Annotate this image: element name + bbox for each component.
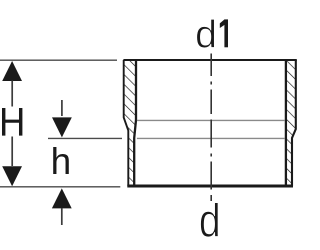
label d1: letter d: [197, 19, 215, 47]
label h: [53, 147, 69, 174]
label H: [2, 108, 22, 136]
dimension H arrow down: [2, 166, 22, 186]
top extension line (H top / fitting top face): [0, 59, 117, 61]
socket interior line upper: [137, 119, 285, 121]
dimension h arrow down (outside, above h top line): [52, 117, 72, 137]
bottom extension line (H bottom / fitting bottom face): [0, 186, 120, 188]
pipe top edge: [123, 59, 296, 61]
dimension h arrow up (outside, below bottom line): [52, 188, 72, 208]
pipe right wall outer edge: [292, 60, 296, 186]
dimension H arrow up: [2, 61, 22, 81]
dimension H line lower segment: [11, 137, 13, 167]
h top extension line: [48, 137, 122, 139]
socket interior line lower: [137, 137, 285, 139]
pipe left wall inner edge: [134, 60, 136, 186]
dimension h lower leader line: [61, 208, 63, 225]
label d1: digit 1 (narrow univers-style, drawn): [224, 19, 228, 47]
pipe bottom edge: [127, 184, 293, 187]
pipe right wall inner edge: [285, 60, 287, 186]
pipe right wall (hatched section): [286, 60, 296, 186]
pipe left wall (hatched section): [124, 60, 136, 186]
dimension h upper leader line: [61, 100, 63, 116]
label d: [201, 203, 219, 237]
pipe left wall outer edge: [124, 60, 129, 186]
centerline (dash-dot), explicit segments: [210, 54, 212, 202]
dimension H line upper segment: [11, 81, 13, 107]
